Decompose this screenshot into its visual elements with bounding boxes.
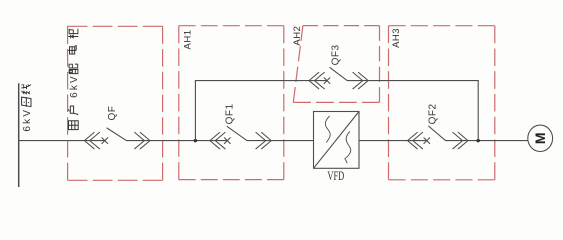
wire: QF2 hinge to motor (through junction B) (445, 140, 527, 142)
svg-text:QF2: QF2 (428, 103, 439, 124)
busbar 6kV (vertical bus line) (18, 83, 20, 187)
cabinet box 用户6kV配电柜 (dashed) (68, 26, 163, 180)
wire: bypass downcomer to node B (347, 81, 478, 141)
breaker QF1 (210, 127, 271, 149)
wire: busbar to QF fixed contact (19, 140, 105, 142)
svg-text:VFD: VFD (327, 169, 344, 183)
svg-text:AH3: AH3 (391, 28, 402, 48)
AC waveform squiggle (VFD output side) (345, 131, 351, 163)
wire: QF1 hinge to VFD input (247, 140, 314, 142)
label 用户6kV配电柜 (rotated) (68, 29, 80, 130)
breaker QF2 (408, 126, 469, 149)
svg-text:AH1: AH1 (182, 30, 193, 50)
svg-text:6kV: 6kV (22, 108, 33, 132)
breaker QF3 (bypass) (309, 68, 368, 89)
svg-text:6kV: 6kV (69, 74, 80, 98)
label 6kV母线 (rotated) (21, 84, 33, 131)
breaker QF (84, 128, 150, 149)
cabinet box AH2 (dashed, slightly skewed left edge) (293, 26, 379, 103)
junction node A (dot) (194, 139, 197, 142)
svg-text:M: M (532, 132, 548, 144)
AC waveform squiggle (VFD input side) (325, 116, 330, 143)
wire: QF hinge to QF1 contact (through junction A) (126, 140, 227, 142)
cabinet box AH3 (dashed) (389, 26, 495, 180)
motor M (circle) (528, 125, 553, 151)
VFD converter box U1 (314, 112, 360, 169)
svg-text:QF: QF (107, 106, 118, 121)
junction node B (dot) (477, 139, 480, 142)
wire: VFD output to QF2 contact (359, 140, 427, 142)
svg-text:QF1: QF1 (225, 103, 236, 124)
wire: bypass riser at node A (195, 81, 327, 141)
svg-text:AH2: AH2 (292, 26, 303, 46)
svg-text:QF3: QF3 (331, 44, 342, 65)
cabinet box AH1 (dashed) (179, 26, 284, 180)
